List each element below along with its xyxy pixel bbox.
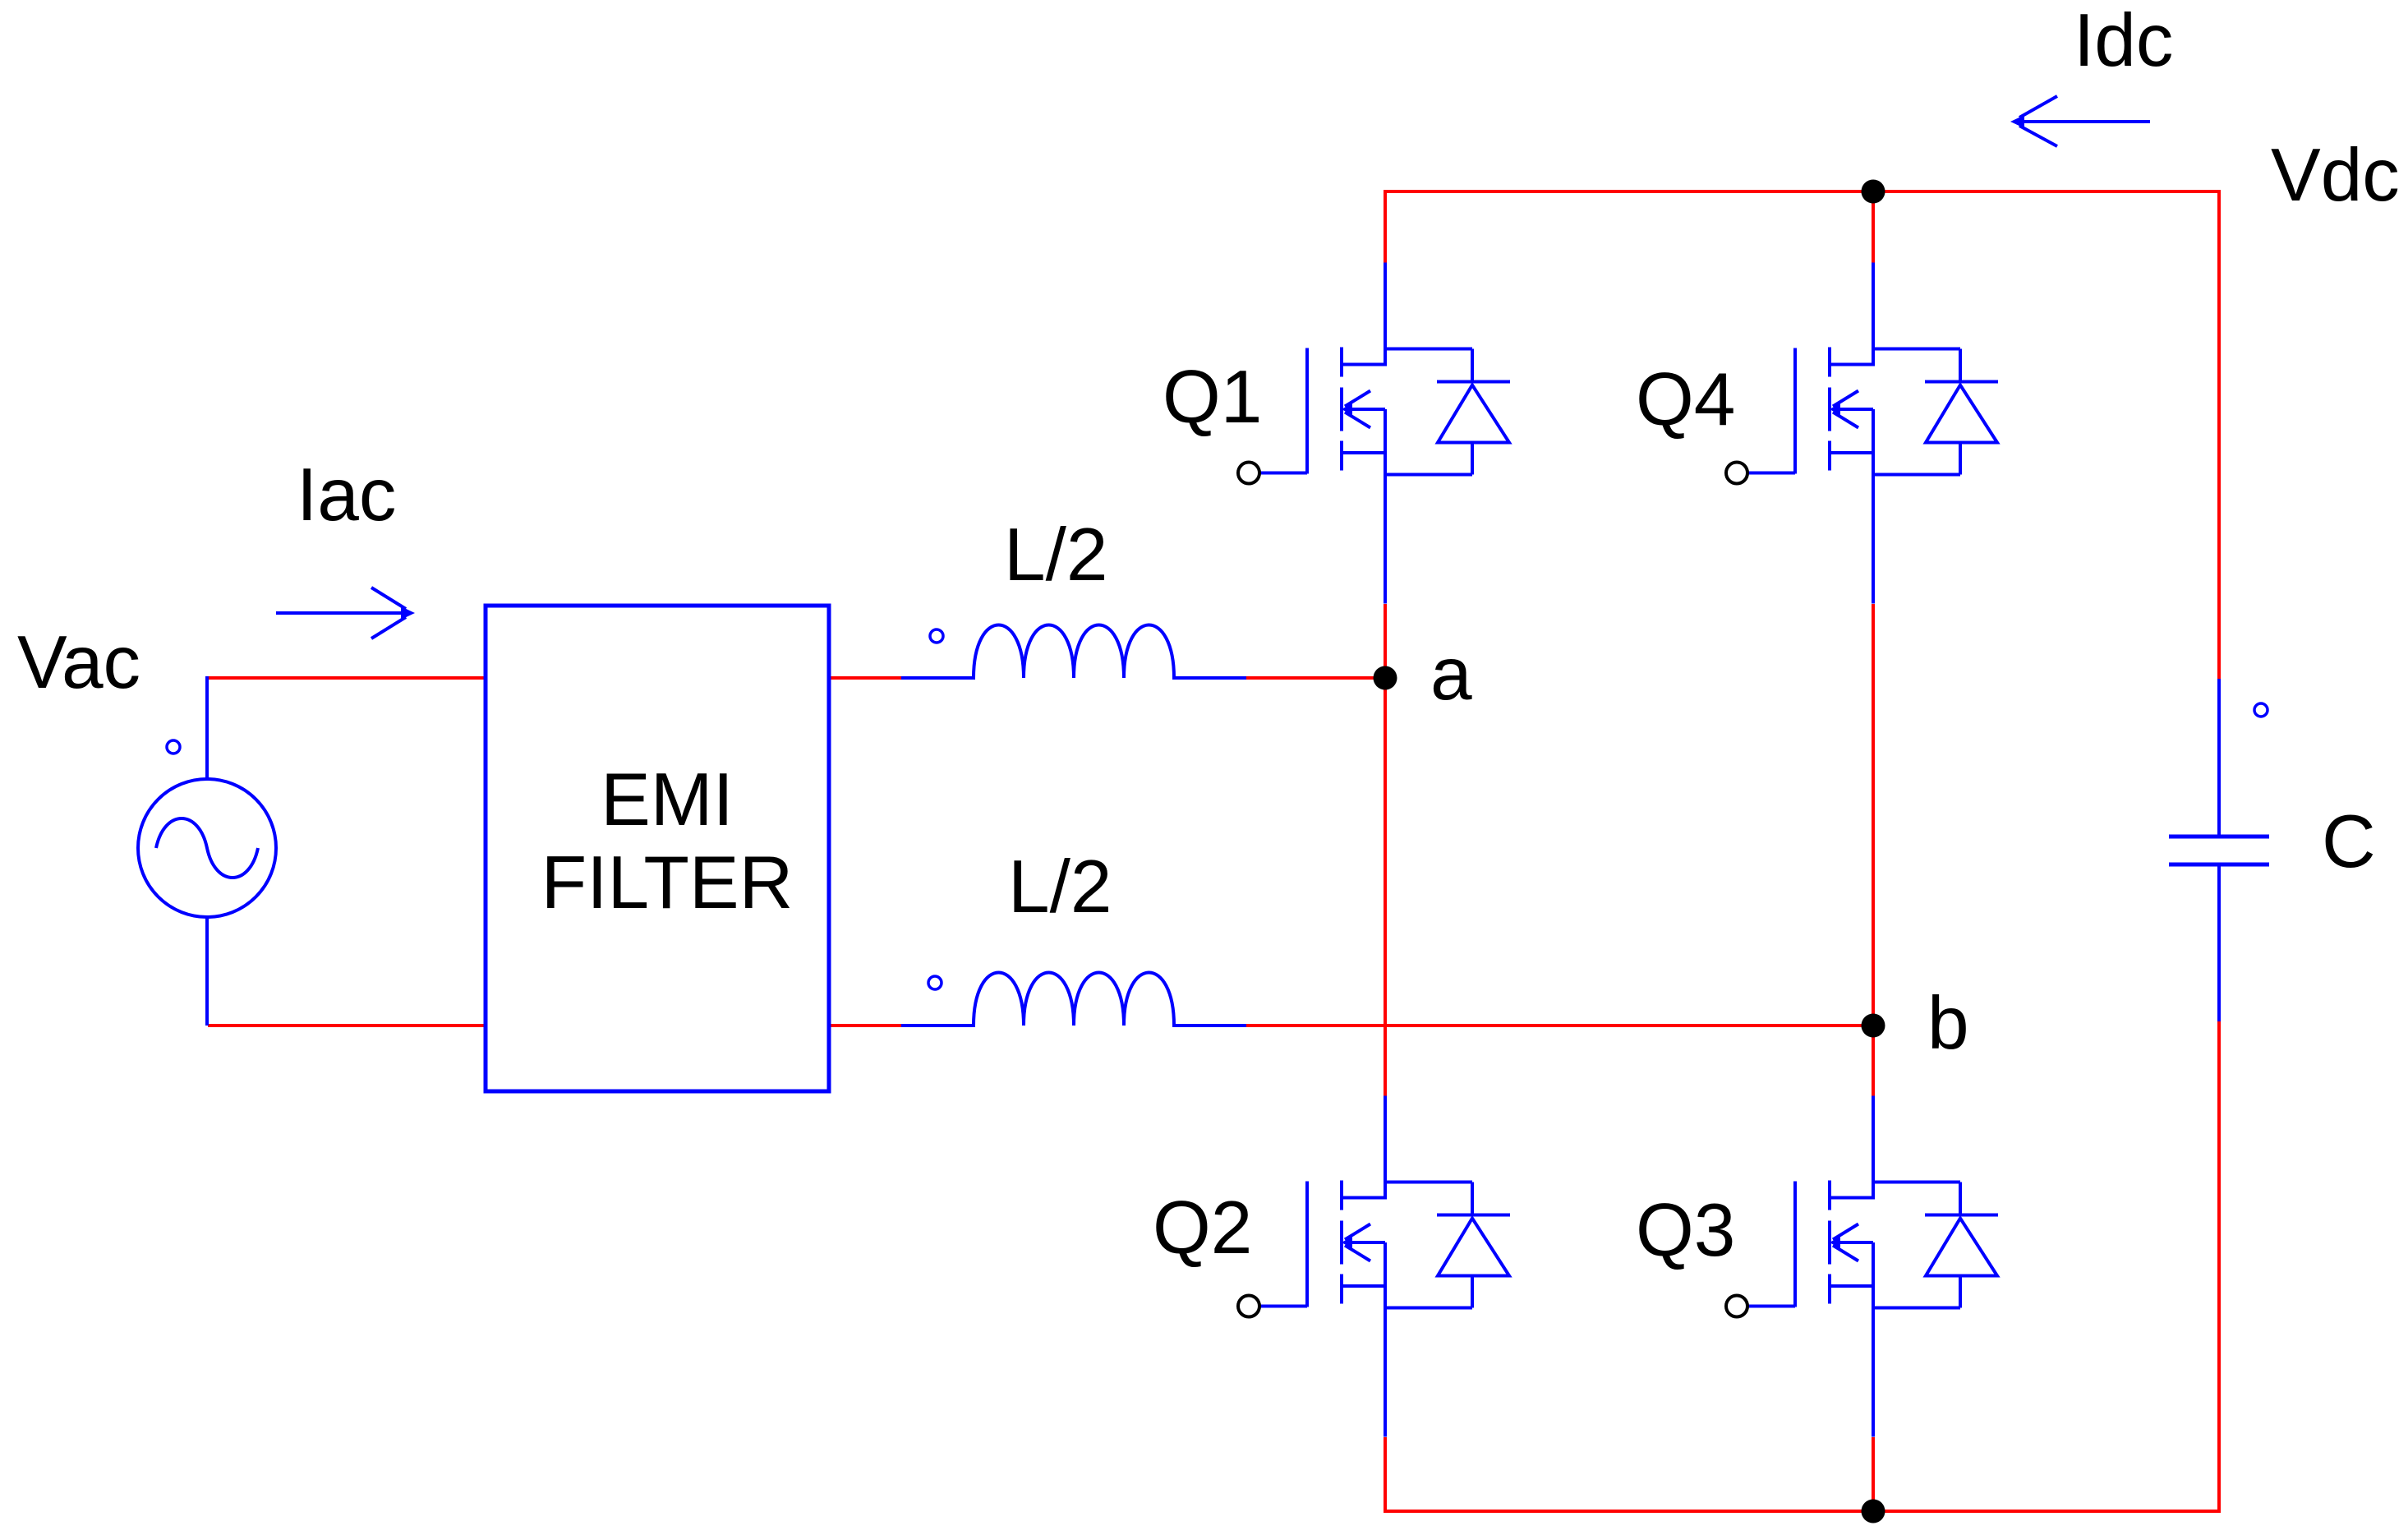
terminal marker o (capacitor) [2254, 703, 2268, 717]
wire right bridge leg middle [1872, 604, 1875, 1096]
svg-text:L/2: L/2 [1008, 846, 1112, 929]
svg-text:Idc: Idc [2074, 0, 2173, 82]
wire bottom bus [1385, 1510, 2219, 1513]
capacitor C top plate [2169, 835, 2269, 839]
wire row a (inductor to node a) [1246, 676, 1385, 680]
svg-text:Iac: Iac [297, 454, 396, 537]
svg-text:Q2: Q2 [1153, 1187, 1252, 1270]
svg-text:EMI: EMI [601, 758, 734, 841]
svg-text:Q1: Q1 [1163, 356, 1262, 439]
AC source sine wave [156, 818, 258, 878]
wire top bus [1385, 190, 2219, 193]
wire right bridge leg top [1872, 191, 1875, 263]
svg-text:FILTER: FILTER [541, 841, 794, 924]
transistor Q2 [1238, 1096, 1510, 1437]
svg-text:b: b [1927, 982, 1969, 1065]
wire Vac top [208, 676, 486, 680]
inductor L/2 bottom [901, 973, 1246, 1026]
svg-text:a: a [1430, 633, 1472, 716]
terminal marker o (Vac) [167, 740, 180, 754]
AC source Vac lead bottom [205, 917, 209, 1026]
capacitor C bottom lead [2217, 864, 2221, 1021]
svg-text:Q4: Q4 [1636, 358, 1735, 441]
svg-text:Vdc: Vdc [2271, 134, 2400, 217]
wire row b (EMI to inductor) [829, 1024, 901, 1027]
node b junction dot [1862, 1014, 1885, 1038]
wire Vac bottom [208, 1024, 486, 1027]
wire outer right leg top [2217, 190, 2221, 679]
wire left leg top [1384, 190, 1387, 263]
transistor Q4 [1726, 263, 1998, 604]
svg-text:C: C [2322, 800, 2376, 883]
node a junction dot [1374, 666, 1397, 690]
AC source Vac lead top [205, 676, 209, 779]
AC source Vac circle [138, 779, 276, 917]
current arrow Iac [276, 588, 415, 638]
transistor Q3 [1726, 1096, 1998, 1437]
svg-text:Q3: Q3 [1636, 1189, 1735, 1272]
wire row b (inductor to node b) [1246, 1024, 1873, 1027]
inductor L/2 top [901, 625, 1246, 679]
svg-text:L/2: L/2 [1004, 514, 1108, 597]
wire right bridge leg bottom [1872, 1437, 1875, 1513]
current arrow Idc [2010, 96, 2150, 146]
junction dot bottom bus [1862, 1500, 1885, 1523]
junction dot top bus [1862, 180, 1885, 204]
wire outer right leg bottom [2217, 1021, 2221, 1513]
capacitor C bottom plate [2169, 863, 2269, 867]
wire left leg middle [1384, 604, 1387, 1096]
capacitor C top lead [2217, 679, 2221, 837]
wire left leg bottom [1384, 1437, 1387, 1513]
transistor Q1 [1238, 263, 1510, 604]
svg-text:Vac: Vac [17, 621, 140, 704]
EMI filter box [486, 606, 829, 1091]
terminal marker o (L/2 top) [930, 629, 943, 643]
wire row a (EMI to inductor) [829, 676, 901, 680]
terminal marker o (L/2 bottom) [928, 976, 942, 989]
